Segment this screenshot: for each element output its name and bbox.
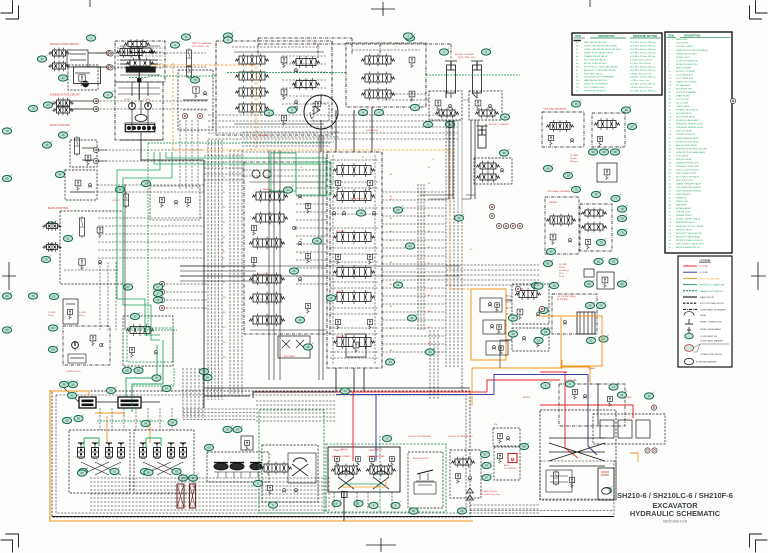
port connector bbox=[93, 158, 98, 163]
svg-text:P2: P2 bbox=[223, 177, 225, 179]
wire bbox=[82, 147, 94, 149]
component balloon bbox=[405, 34, 415, 42]
svg-text:PL: PL bbox=[430, 289, 432, 291]
svg-text:A4: A4 bbox=[390, 239, 392, 242]
svg-text:45: 45 bbox=[61, 133, 65, 137]
svg-text:24: 24 bbox=[286, 188, 290, 192]
green return manifold box 2 bbox=[296, 162, 331, 195]
center relief 5 bbox=[335, 319, 340, 329]
component balloon bbox=[407, 314, 417, 322]
svg-text:SELF RED. VALVE: SELF RED. VALVE bbox=[584, 72, 603, 75]
svg-text:66: 66 bbox=[460, 509, 464, 513]
left bank relief bbox=[251, 225, 256, 235]
left bank spool 6 bbox=[249, 314, 285, 327]
return block L1 bbox=[512, 284, 549, 324]
svg-text:57: 57 bbox=[165, 387, 169, 391]
left small ports wires bbox=[96, 150, 107, 161]
svg-text:79: 79 bbox=[599, 241, 603, 245]
svg-text:68: 68 bbox=[522, 445, 526, 449]
component balloon bbox=[340, 387, 350, 395]
shaft junction bbox=[138, 79, 142, 83]
port connector bbox=[515, 286, 520, 291]
svg-text:71: 71 bbox=[184, 35, 188, 39]
wire bbox=[70, 100, 94, 102]
LS solenoid bbox=[123, 192, 128, 208]
center bank spool 3 bbox=[333, 230, 375, 244]
damper valve bbox=[241, 436, 253, 450]
component balloon bbox=[480, 450, 490, 458]
pedal option box bbox=[408, 452, 443, 508]
svg-text:B10: B10 bbox=[428, 311, 431, 313]
component balloon bbox=[405, 242, 415, 249]
vertical pilot drops bbox=[99, 408, 101, 430]
svg-text:PRESSURE SENSOR (LOW): PRESSURE SENSOR (LOW) bbox=[676, 124, 703, 126]
component balloon bbox=[106, 386, 116, 394]
svg-text:23: 23 bbox=[298, 318, 302, 322]
pilot unit A4 bbox=[118, 443, 125, 458]
svg-text:OPT. 5-6 MPa 176 psi 4 bar: OPT. 5-6 MPa 176 psi 4 bar bbox=[480, 494, 500, 496]
svg-text:OPTIONAL (CRUSHER): OPTIONAL (CRUSHER) bbox=[547, 190, 571, 193]
left drops to bundles bbox=[179, 120, 181, 190]
component balloon bbox=[141, 179, 151, 186]
check CV6 bbox=[98, 261, 102, 265]
component balloon bbox=[410, 103, 420, 111]
svg-text:1.0 MPa 10.2 bar: 1.0 MPa 10.2 bar bbox=[66, 370, 81, 373]
wire orange cooler 2 bbox=[562, 337, 602, 366]
svg-text:78: 78 bbox=[620, 231, 624, 235]
swing relief bbox=[335, 457, 340, 467]
svg-text:63: 63 bbox=[207, 446, 211, 450]
component balloon bbox=[130, 312, 140, 320]
signal web horizontal left bbox=[180, 265, 256, 267]
svg-text:47: 47 bbox=[58, 173, 62, 177]
svg-text:2.9 MPa 30 bar 427 psi: 2.9 MPa 30 bar 427 psi bbox=[630, 73, 653, 75]
dashed bundle verticals bbox=[182, 368, 184, 418]
component balloon bbox=[63, 234, 73, 241]
component balloon bbox=[144, 468, 154, 476]
svg-text:SWING PORT RELIEF VALVE: SWING PORT RELIEF VALVE bbox=[584, 52, 614, 55]
inner rails left bank bbox=[250, 181, 326, 183]
bundle down right of bank bbox=[429, 330, 431, 400]
legend pedal connection symbol bbox=[685, 319, 693, 324]
port connector bbox=[651, 405, 656, 410]
component balloon bbox=[356, 209, 366, 216]
registration cross top bbox=[371, 2, 395, 16]
svg-text:25 L/MIN: 25 L/MIN bbox=[559, 264, 567, 266]
svg-text:RETURN FILTER: RETURN FILTER bbox=[676, 88, 692, 90]
swing feed bbox=[320, 129, 322, 152]
swing motor internals bbox=[314, 106, 320, 114]
component balloon bbox=[541, 328, 551, 336]
component balloon bbox=[354, 499, 364, 507]
svg-text:54: 54 bbox=[51, 348, 55, 352]
main pump assembly boundary bbox=[115, 41, 165, 82]
component balloon bbox=[543, 259, 553, 267]
svg-text:31: 31 bbox=[396, 283, 400, 287]
oil cooler block bbox=[552, 294, 597, 334]
port connector bbox=[510, 223, 515, 228]
svg-text:STD2 W/ RD - 7.8V: STD2 W/ RD - 7.8V bbox=[192, 46, 210, 48]
joystick pilot valve group B boundary bbox=[134, 430, 194, 493]
extra verticals into pilot box bbox=[99, 262, 101, 330]
svg-text:CENTER JOINT: CENTER JOINT bbox=[676, 212, 691, 214]
component balloon bbox=[303, 343, 313, 351]
small valves row bbox=[43, 221, 62, 231]
svg-text:11: 11 bbox=[612, 385, 615, 389]
component balloon bbox=[264, 109, 274, 117]
svg-text:PL2: PL2 bbox=[260, 299, 263, 301]
svg-text:CONNECTING TEE NO.: CONNECTING TEE NO. bbox=[700, 354, 723, 356]
svg-text:T1: T1 bbox=[432, 159, 434, 161]
svg-text:69: 69 bbox=[5, 294, 9, 298]
bank inner dashed web bbox=[330, 159, 379, 161]
left bank column boundary bbox=[244, 162, 330, 334]
svg-text:SERVICE PORT RELIEF: SERVICE PORT RELIEF bbox=[584, 84, 609, 86]
green dashed inside pump bbox=[129, 77, 148, 79]
svg-text:64: 64 bbox=[144, 422, 148, 426]
svg-text:OIL COOLER: OIL COOLER bbox=[676, 103, 689, 105]
svg-text:57: 57 bbox=[155, 376, 159, 380]
svg-text:PILOT VALVE (RH): PILOT VALVE (RH) bbox=[676, 77, 694, 80]
svg-text:P4: P4 bbox=[223, 207, 225, 209]
svg-text:ANTI-DRIFT VALVE (ARM): ANTI-DRIFT VALVE (ARM) bbox=[676, 235, 700, 238]
legend red line P pump bbox=[683, 265, 697, 267]
svg-text:1.2 MPa: 1.2 MPa bbox=[143, 99, 150, 101]
extra cluster right of bank B bbox=[474, 158, 512, 184]
svg-text:BOOM CYLINDER (RH): BOOM CYLINDER (RH) bbox=[676, 64, 698, 66]
gray pipe pair bbox=[457, 120, 459, 212]
external marker box bbox=[598, 468, 614, 500]
component balloon bbox=[326, 294, 336, 302]
upper web between banks bbox=[208, 114, 460, 116]
component balloon bbox=[457, 507, 467, 514]
svg-text:A1: A1 bbox=[222, 241, 224, 244]
svg-text:36: 36 bbox=[574, 102, 578, 106]
svg-text:PEDAL DETACHABLE: PEDAL DETACHABLE bbox=[700, 328, 722, 331]
svg-text:CHECK VALVE: CHECK VALVE bbox=[676, 105, 690, 108]
svg-text:76: 76 bbox=[594, 193, 598, 197]
svg-text:26: 26 bbox=[144, 182, 148, 186]
pilot unit A2 bbox=[92, 443, 99, 458]
svg-text:A9: A9 bbox=[390, 349, 392, 352]
component balloon bbox=[2, 174, 12, 181]
component balloon bbox=[48, 324, 58, 332]
component balloon bbox=[283, 186, 293, 193]
boundary bottom extension bbox=[470, 510, 614, 512]
boom cylinder feed lines bbox=[448, 120, 450, 199]
svg-text:58: 58 bbox=[62, 383, 66, 387]
svg-text:PILOT RELIEF VALVE: PILOT RELIEF VALVE bbox=[584, 58, 606, 61]
component balloon bbox=[2, 292, 12, 300]
pedal internals bbox=[214, 471, 262, 473]
svg-text:T2: T2 bbox=[250, 149, 252, 151]
component balloon bbox=[58, 74, 68, 82]
breaker block L bbox=[542, 112, 584, 147]
component balloon bbox=[223, 425, 233, 433]
crusher block R bbox=[580, 204, 612, 251]
svg-text:LEGEND: LEGEND bbox=[700, 259, 711, 263]
pilot unit B1 bbox=[140, 443, 147, 458]
bank A right components bbox=[292, 56, 320, 68]
svg-text:(BOOM 1): (BOOM 1) bbox=[336, 231, 345, 233]
svg-text:3.9 MPa 40 bar 570 psi: 3.9 MPa 40 bar 570 psi bbox=[630, 59, 653, 61]
svg-text:63: 63 bbox=[226, 428, 230, 432]
motor M symbol bbox=[508, 454, 517, 463]
component balloon bbox=[586, 336, 596, 344]
svg-text:HIGH PRESSURE SENSOR: HIGH PRESSURE SENSOR bbox=[676, 191, 702, 193]
spool row A3 bbox=[235, 86, 269, 99]
main rails bank bbox=[318, 135, 320, 380]
svg-text:24: 24 bbox=[359, 211, 363, 215]
svg-text:A2: A2 bbox=[222, 257, 224, 260]
component balloon bbox=[172, 467, 182, 475]
svg-text:B2: B2 bbox=[428, 183, 430, 185]
svg-text:HOSE RUPTURE VALVE (BOOM): HOSE RUPTURE VALVE (BOOM) bbox=[676, 147, 707, 150]
long return line right bbox=[500, 300, 512, 368]
travel motor assembly left bbox=[262, 445, 318, 502]
center relief 4 bbox=[367, 254, 372, 264]
svg-text:FAN MOTOR: FAN MOTOR bbox=[676, 200, 688, 203]
svg-text:MAIN CIRCUIT: MAIN CIRCUIT bbox=[700, 296, 715, 299]
svg-text:SWING MOTOR UNIT (W/ BRAKE): SWING MOTOR UNIT (W/ BRAKE) bbox=[676, 49, 708, 52]
component balloon bbox=[599, 335, 609, 343]
swing motor block boundary bbox=[328, 447, 400, 492]
svg-text:B3: B3 bbox=[390, 231, 392, 233]
pilot circuit boundary box bbox=[52, 391, 470, 517]
option check 1 bbox=[480, 298, 502, 312]
svg-text:20: 20 bbox=[599, 304, 603, 308]
component balloon bbox=[153, 289, 163, 297]
upper assembly boundary bbox=[258, 38, 451, 58]
legend orange line bbox=[683, 277, 697, 279]
component balloon bbox=[28, 104, 38, 112]
center bank spool 4 bbox=[333, 265, 375, 279]
port connector bbox=[108, 51, 113, 56]
pilot unit A1 bbox=[78, 443, 85, 458]
svg-text:B4: B4 bbox=[300, 253, 302, 255]
center bank spool 6 bbox=[333, 335, 375, 349]
svg-text:23: 23 bbox=[396, 208, 400, 212]
pilot interconnect web left bbox=[296, 187, 327, 189]
svg-text:COMPONENT BOUNDARY: COMPONENT BOUNDARY bbox=[700, 308, 726, 311]
svg-text:TRAVEL MOTOR UNIT: TRAVEL MOTOR UNIT bbox=[676, 52, 698, 55]
solenoid valve block SB1 bbox=[186, 48, 191, 68]
svg-text:P2 set: P2 set bbox=[559, 275, 565, 278]
valve block VB4 bbox=[65, 170, 97, 200]
svg-text:65: 65 bbox=[80, 471, 84, 475]
accumulator A2 bbox=[82, 81, 88, 87]
left bank check col bbox=[298, 195, 302, 199]
svg-text:BUCKET CYLINDER: BUCKET CYLINDER bbox=[489, 124, 509, 126]
component balloon bbox=[134, 366, 144, 374]
svg-text:BOOM CYLINDER (LH): BOOM CYLINDER (LH) bbox=[676, 60, 698, 62]
registration cross left bbox=[2, 262, 16, 290]
long dashed rails to left bank bbox=[242, 131, 339, 133]
left bank spool 1 bbox=[252, 190, 288, 203]
svg-text:--- MPa --- bar --- psi: --- MPa --- bar --- psi bbox=[630, 80, 650, 82]
component balloon bbox=[617, 205, 627, 212]
component balloon bbox=[445, 120, 455, 128]
component balloon bbox=[170, 41, 180, 49]
svg-text:73: 73 bbox=[193, 78, 197, 82]
svg-text:RETURN TO DRAIN LINE: RETURN TO DRAIN LINE bbox=[700, 284, 725, 287]
svg-text:BOOST PUMP RELIEF: BOOST PUMP RELIEF bbox=[584, 63, 607, 65]
port connector bbox=[93, 147, 98, 152]
crop mark bottom-right bbox=[750, 534, 768, 553]
svg-text:P7: P7 bbox=[223, 252, 225, 254]
svg-text:S PUMP: S PUMP bbox=[700, 272, 709, 274]
svg-text:A2: A2 bbox=[390, 195, 392, 198]
inner rail A bbox=[234, 51, 324, 53]
svg-text:69: 69 bbox=[5, 177, 9, 181]
center relief 1 bbox=[335, 180, 340, 190]
svg-text:B6: B6 bbox=[428, 247, 430, 249]
svg-text:A3: A3 bbox=[390, 198, 392, 201]
component balloon bbox=[312, 237, 322, 244]
check column A bbox=[294, 69, 298, 73]
center bank spool 2 bbox=[333, 189, 375, 203]
signal bundle 3 bbox=[445, 120, 447, 368]
right web to cooler bbox=[506, 295, 512, 297]
svg-text:TRAVEL PILOT VALVE: TRAVEL PILOT VALVE bbox=[676, 80, 697, 83]
svg-text:43: 43 bbox=[61, 76, 65, 80]
pilot web left of bank bbox=[204, 155, 244, 157]
black feed from pump bbox=[141, 140, 204, 160]
svg-text:27: 27 bbox=[126, 285, 130, 289]
port connector bbox=[159, 289, 164, 294]
svg-text:SWING PARKING VALVE: SWING PARKING VALVE bbox=[676, 137, 700, 140]
component balloon bbox=[268, 501, 278, 509]
svg-text:P.T.O 1HP/70W: P.T.O 1HP/70W bbox=[504, 468, 516, 470]
component balloon bbox=[644, 392, 654, 400]
port connector bbox=[108, 65, 113, 70]
svg-text:OPTIONAL (BREAKER): OPTIONAL (BREAKER) bbox=[543, 108, 567, 111]
svg-text:ACCUMULATOR: ACCUMULATOR bbox=[676, 112, 692, 115]
link bank to 2speed bbox=[461, 368, 463, 392]
swing unit green boundary bbox=[326, 444, 446, 512]
svg-text:PEDAL CONNECTION: PEDAL CONNECTION bbox=[700, 321, 722, 324]
svg-text:18: 18 bbox=[544, 330, 548, 334]
component balloon bbox=[591, 190, 601, 197]
svg-text:BYPASS: BYPASS bbox=[549, 201, 558, 204]
svg-text:25 L/MIN: 25 L/MIN bbox=[570, 155, 579, 157]
component balloon bbox=[482, 473, 492, 481]
registration cross bottom bbox=[366, 538, 396, 552]
svg-text:83: 83 bbox=[620, 282, 624, 286]
svg-text:BOOM HOLD OVERLOAD RELIEF: BOOM HOLD OVERLOAD RELIEF bbox=[584, 65, 618, 68]
travel pilot valve cluster bbox=[207, 452, 269, 482]
port connector bbox=[517, 223, 522, 228]
svg-text:LS P/O/T: LS P/O/T bbox=[112, 200, 121, 202]
svg-text:P5: P5 bbox=[223, 222, 225, 224]
component balloon bbox=[602, 486, 612, 494]
signal bundle 4 bbox=[417, 184, 419, 330]
component balloon bbox=[403, 32, 413, 40]
svg-text:GAUGE PORT SWITCH: GAUGE PORT SWITCH bbox=[700, 290, 723, 293]
svg-text:66: 66 bbox=[412, 509, 416, 513]
component balloon bbox=[543, 164, 553, 171]
cooler bypass check bbox=[563, 321, 567, 325]
component balloon bbox=[391, 501, 401, 509]
component balloon bbox=[2, 127, 12, 135]
component balloon bbox=[549, 281, 559, 289]
svg-text:PILOT PRESS (IDLE): PILOT PRESS (IDLE) bbox=[584, 87, 605, 89]
svg-text:DRAIN FILTER: DRAIN FILTER bbox=[676, 95, 690, 98]
svg-text:SWIVEL JOINT: SWIVEL JOINT bbox=[676, 57, 691, 59]
svg-text:44: 44 bbox=[46, 103, 50, 107]
breaker block R bbox=[592, 113, 625, 147]
svg-text:33: 33 bbox=[511, 332, 515, 336]
pilot web from pilot groups bbox=[96, 52, 206, 54]
swivel joint lines bbox=[549, 443, 605, 461]
svg-text:82: 82 bbox=[597, 260, 601, 264]
component balloon bbox=[162, 384, 172, 392]
shuttle block cluster bbox=[123, 316, 173, 366]
svg-text:2ND RELIEF (OPT BREAKER): 2ND RELIEF (OPT BREAKER) bbox=[584, 76, 614, 79]
svg-text:1.2 MPa: 1.2 MPa bbox=[124, 99, 131, 101]
component balloon bbox=[153, 283, 163, 291]
dashes boundary to 2speed bbox=[470, 504, 540, 506]
wire bbox=[88, 52, 107, 54]
svg-text:55: 55 bbox=[65, 419, 69, 423]
svg-text:(ARM 1): (ARM 1) bbox=[336, 290, 343, 293]
svg-text:(REAR): (REAR) bbox=[625, 396, 632, 399]
group A crossover bbox=[81, 462, 121, 475]
pump regulator extra bbox=[117, 47, 163, 49]
svg-text:39.2 MPa 400 bar 5690 psi: 39.2 MPa 400 bar 5690 psi bbox=[630, 66, 656, 68]
title text bbox=[617, 491, 733, 524]
svg-text:25: 25 bbox=[292, 269, 296, 273]
svg-text:38: 38 bbox=[591, 150, 595, 154]
green return manifold box 1 bbox=[271, 153, 296, 191]
svg-text:LOW PRESSURE SENSOR: LOW PRESSURE SENSOR bbox=[676, 187, 702, 189]
component balloon bbox=[37, 55, 47, 63]
reducing valve RD2 bbox=[597, 272, 614, 289]
svg-text:OVER LOAD RELIEF (BOTTOM SIDE): OVER LOAD RELIEF (BOTTOM SIDE) bbox=[584, 48, 622, 51]
svg-text:37: 37 bbox=[630, 125, 634, 129]
2speed upper box A bbox=[559, 384, 598, 426]
svg-text:20: 20 bbox=[588, 304, 592, 308]
green dashed top of band bbox=[148, 142, 330, 144]
pump extra internals bbox=[120, 45, 160, 47]
reducing valve bbox=[193, 87, 199, 98]
component balloon bbox=[584, 280, 594, 288]
svg-text:P PUMP: P PUMP bbox=[700, 266, 709, 268]
main rails mid bbox=[268, 150, 270, 380]
svg-text:2 4: 2 4 bbox=[103, 457, 105, 459]
svg-text:AIR/DC: AIR/DC bbox=[504, 464, 511, 467]
spool row A2 bbox=[235, 70, 269, 83]
component balloon bbox=[534, 282, 544, 290]
svg-text:RIDE CONTROL VALVE (OPT): RIDE CONTROL VALVE (OPT) bbox=[676, 242, 704, 245]
green dashed into manifold bbox=[97, 368, 174, 421]
crusher block L bbox=[545, 197, 579, 254]
signal bundle 1 bbox=[207, 140, 209, 400]
svg-text:55: 55 bbox=[77, 417, 81, 421]
component balloon bbox=[168, 418, 178, 426]
svg-text:5 7: 5 7 bbox=[139, 457, 141, 459]
boom feed elbow bbox=[420, 195, 475, 199]
svg-text:SHOCKLESS VALVE: SHOCKLESS VALVE bbox=[676, 116, 696, 119]
svg-text:39: 39 bbox=[566, 174, 570, 178]
legend external marker bbox=[684, 358, 693, 364]
pedal sym bbox=[417, 470, 433, 474]
svg-text:4.4 MPa: 4.4 MPa bbox=[79, 312, 87, 314]
svg-text:210 bar: 210 bar bbox=[559, 266, 566, 269]
component balloon bbox=[67, 391, 77, 399]
svg-text:P11: P11 bbox=[223, 312, 226, 314]
component balloon bbox=[115, 185, 125, 192]
